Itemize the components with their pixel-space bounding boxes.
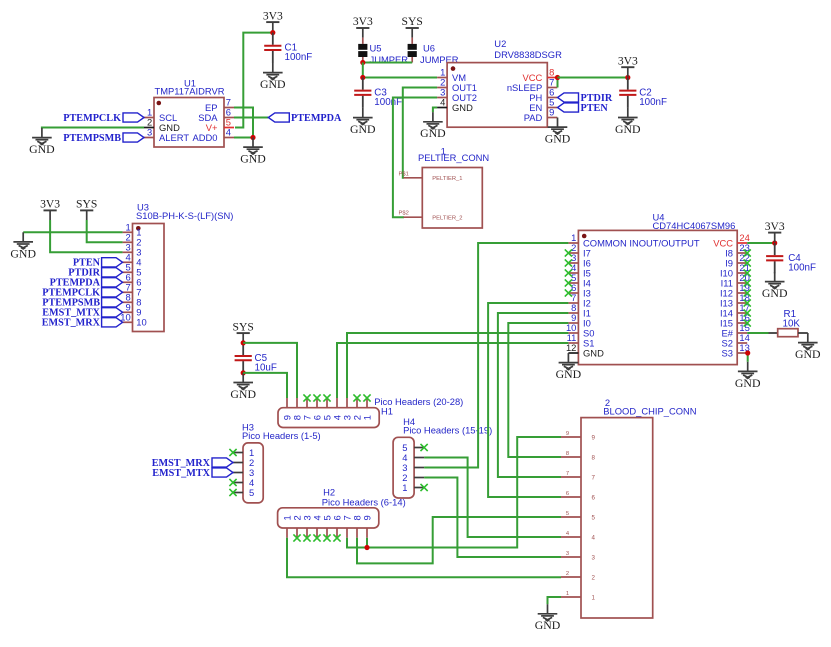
svg-text:7: 7 bbox=[566, 471, 569, 477]
wire U2.VCC to nSLEEP bbox=[557, 78, 559, 88]
junction H2 pin9 bbox=[364, 545, 369, 550]
svg-text:PELTIER_1: PELTIER_1 bbox=[432, 176, 462, 182]
svg-text:ALERT: ALERT bbox=[159, 132, 189, 143]
ground GND below U1.ADD0 bbox=[243, 138, 263, 155]
U1 pin 7 EP bbox=[224, 107, 234, 109]
svg-text:EMST_MTX: EMST_MTX bbox=[152, 468, 210, 479]
U4 pin 13 S3 bbox=[737, 352, 747, 354]
capacitor C2 100nF bbox=[627, 78, 629, 90]
svg-text:100nF: 100nF bbox=[788, 263, 816, 274]
H3 no-connects pins 1,4,5 bbox=[229, 449, 236, 456]
svg-text:P$2: P$2 bbox=[399, 211, 409, 217]
label EMST_MRX at H3 pin2 bbox=[212, 458, 233, 467]
junction C4 top bbox=[772, 240, 777, 245]
U3 pin 4 bbox=[123, 261, 133, 263]
U4 pin 21 I10 bbox=[737, 272, 747, 274]
PELTIER_CONN pin P$2 bbox=[404, 216, 423, 218]
svg-text:GND: GND bbox=[535, 618, 561, 632]
H2 pin 9 bbox=[366, 528, 368, 538]
wire U1.GND to ground bbox=[42, 128, 144, 129]
svg-text:ADD0: ADD0 bbox=[192, 132, 217, 143]
ground GND below C3 bbox=[353, 108, 373, 125]
label PTEMPSMB at U1.ALERT bbox=[123, 133, 144, 142]
svg-text:S3: S3 bbox=[722, 347, 733, 358]
U4 pin 6 I3 bbox=[568, 292, 578, 294]
svg-text:10K: 10K bbox=[783, 319, 801, 330]
H4 pin 5 bbox=[414, 447, 424, 449]
H3 pin 4 bbox=[233, 482, 243, 484]
ground GND left of U3 bbox=[13, 232, 33, 249]
svg-text:Pico Headers (20-28): Pico Headers (20-28) bbox=[374, 396, 463, 407]
svg-text:U2: U2 bbox=[494, 38, 506, 49]
svg-text:DRV8838DSGR: DRV8838DSGR bbox=[494, 49, 562, 60]
wire U4.I0 to BLOOD pin8 bbox=[508, 323, 568, 457]
svg-text:GND: GND bbox=[350, 122, 376, 136]
svg-text:1: 1 bbox=[361, 415, 372, 420]
H1 pin 2 bbox=[356, 398, 358, 408]
U2 pin 1 VM bbox=[437, 77, 447, 79]
svg-text:JUMPER: JUMPER bbox=[370, 54, 409, 65]
H2 pin 8 bbox=[356, 528, 358, 538]
connector H1 Pico Headers (20-28) body bbox=[278, 408, 379, 428]
U4 pin 9 I0 bbox=[568, 322, 578, 324]
svg-text:Pico Headers (1-5): Pico Headers (1-5) bbox=[242, 430, 321, 441]
junction U2.VCC bbox=[555, 75, 560, 80]
svg-text:8: 8 bbox=[592, 455, 596, 462]
label EMST_MRX at U3 pin 10 bbox=[102, 318, 123, 327]
U4 pin 8 I1 bbox=[568, 312, 578, 314]
label PTDIR at U2.PH bbox=[558, 93, 579, 102]
U2 pin 4 GND bbox=[437, 107, 447, 109]
svg-text:3: 3 bbox=[147, 127, 152, 138]
U1 pin 1 SCL bbox=[144, 117, 154, 119]
H3 pin 5 bbox=[233, 492, 243, 494]
svg-text:PELTIER_2: PELTIER_2 bbox=[432, 216, 462, 222]
U4 pin 4 I5 bbox=[568, 272, 578, 274]
IC U1 TMP117AIDRVR body bbox=[154, 98, 224, 148]
label PTEMPDA at U3 pin 6 bbox=[102, 278, 123, 287]
U4 pin 15 E# bbox=[737, 332, 747, 334]
U2 pin 9 PAD bbox=[547, 117, 557, 119]
wire U1.SDA to PTEMPDA bbox=[234, 117, 268, 119]
svg-text:GND: GND bbox=[29, 142, 55, 156]
wire U2.VCC to 3V3/C2 bbox=[558, 77, 628, 79]
U4 pin 24 VCC bbox=[737, 242, 747, 244]
wire U4.S0 to H1 pin3 bbox=[347, 333, 568, 398]
svg-text:2: 2 bbox=[592, 575, 596, 582]
U1 pin 6 SDA bbox=[224, 117, 234, 119]
svg-text:PELTIER_CONN: PELTIER_CONN bbox=[418, 152, 489, 163]
svg-text:1: 1 bbox=[566, 591, 569, 597]
svg-text:P$1: P$1 bbox=[399, 171, 409, 177]
H4 no-connects pins 5,1 bbox=[421, 444, 428, 451]
U1 pin 4 ADD0 bbox=[224, 137, 234, 139]
svg-text:4: 4 bbox=[440, 97, 445, 108]
connector PELTIER_CONN body bbox=[422, 168, 482, 229]
H4 pin 4 bbox=[414, 457, 424, 459]
U4 pin 10 S0 bbox=[568, 332, 578, 334]
wire H2 pin1 to BLOOD pin2 bbox=[287, 538, 561, 577]
svg-text:3V3: 3V3 bbox=[263, 9, 283, 22]
svg-text:9: 9 bbox=[361, 515, 372, 520]
U4 pin 16 I15 bbox=[737, 322, 747, 324]
svg-text:3V3: 3V3 bbox=[40, 198, 60, 211]
wire U1.EP to ground net bbox=[234, 108, 253, 138]
U4 pin 5 I4 bbox=[568, 282, 578, 284]
jumper U5 bbox=[362, 38, 364, 44]
H3 pin 1 bbox=[233, 452, 243, 454]
svg-text:7: 7 bbox=[592, 475, 596, 482]
U3 pin 1 bbox=[123, 231, 133, 233]
label PTEMPSMB at U3 pin 8 bbox=[102, 298, 123, 307]
wire 3V3 to C1/V+ node bbox=[235, 33, 273, 128]
svg-text:5: 5 bbox=[592, 515, 596, 522]
ground GND below U4 pin13 bbox=[738, 362, 758, 379]
capacitor C1 100nF bbox=[272, 33, 274, 45]
U4 no-connects right pins 23-16 bbox=[744, 249, 751, 256]
H3 pin 3 bbox=[233, 472, 243, 474]
svg-text:U6: U6 bbox=[423, 43, 435, 54]
label PTEMPCLK at U1.SCL bbox=[123, 113, 144, 122]
H1 pin 9 bbox=[286, 398, 288, 408]
svg-text:PTEMPDA: PTEMPDA bbox=[291, 113, 342, 124]
U3 pin 2 bbox=[123, 241, 133, 243]
wire U1.ADD0 to ground net bbox=[234, 137, 253, 139]
ground GND below U2.PAD bbox=[548, 118, 568, 135]
wire U5 to U6 bottom bbox=[363, 62, 412, 64]
svg-text:GND: GND bbox=[420, 126, 446, 140]
ground GND below U4 pin12 bbox=[559, 353, 579, 370]
H4 pin 1 bbox=[414, 487, 424, 489]
U1 pin 5 V+ bbox=[224, 127, 234, 129]
wire U5 to U2.VM / C3 bbox=[363, 63, 437, 78]
svg-text:SYS: SYS bbox=[233, 320, 254, 333]
svg-text:3V3: 3V3 bbox=[765, 220, 785, 233]
wire H4 pin2 to BLOOD pin3 bbox=[424, 478, 561, 558]
jumper U6 bbox=[411, 38, 413, 44]
wire 3V3 to U3 pin3 bbox=[50, 220, 123, 252]
U1 pin 3 ALERT bbox=[144, 137, 154, 139]
BLOOD_CHIP_CONN pin 4 bbox=[561, 536, 581, 538]
H1 pin 3 bbox=[346, 398, 348, 408]
svg-text:100nF: 100nF bbox=[639, 97, 667, 108]
U4 pin 20 I11 bbox=[737, 282, 747, 284]
svg-text:9: 9 bbox=[549, 107, 554, 118]
U4 pin 3 I6 bbox=[568, 262, 578, 264]
svg-text:GND: GND bbox=[260, 77, 286, 91]
connector H2 Pico Headers (6-14) body bbox=[278, 508, 379, 528]
ground GND below BLOOD pin1 bbox=[538, 604, 558, 621]
connector U3 body bbox=[133, 224, 165, 332]
H2 pin 4 bbox=[316, 528, 318, 538]
wire SYS to H1 pin8 bbox=[243, 343, 297, 398]
svg-text:S10B-PH-K-S-(LF)(SN): S10B-PH-K-S-(LF)(SN) bbox=[136, 210, 233, 221]
svg-text:1: 1 bbox=[592, 595, 596, 602]
wire U4 S3 to ground bbox=[747, 353, 749, 362]
ground GND below C2 bbox=[618, 108, 638, 125]
wire C5 bottom to H1 pin9 bbox=[243, 373, 287, 398]
svg-text:GND: GND bbox=[240, 152, 266, 166]
wire H2 pin7/pin9 to BLOOD pin9 bbox=[347, 437, 561, 548]
svg-text:5: 5 bbox=[566, 511, 569, 517]
H3 pin 2 bbox=[233, 462, 243, 464]
junction EP/ADD0 ground bbox=[250, 135, 255, 140]
svg-text:SYS: SYS bbox=[402, 15, 423, 28]
svg-text:PAD: PAD bbox=[524, 112, 543, 123]
IC U2 DRV8838DSGR body bbox=[447, 63, 547, 128]
junction C2 top bbox=[625, 75, 630, 80]
U3 pin 10 bbox=[123, 321, 133, 323]
capacitor C3 100nF bbox=[362, 78, 364, 90]
H1 pin 6 bbox=[316, 398, 318, 408]
svg-text:GND: GND bbox=[795, 347, 821, 361]
H2 pin 2 bbox=[296, 528, 298, 538]
BLOOD_CHIP_CONN pin 8 bbox=[561, 456, 581, 458]
U3 pin 5 bbox=[123, 271, 133, 273]
U4 pin 1 COMMON INOUT/OUTPUT bbox=[568, 242, 578, 244]
svg-text:CD74HC4067SM96: CD74HC4067SM96 bbox=[653, 220, 736, 231]
junction U5 bottom bbox=[360, 60, 365, 65]
svg-text:GND: GND bbox=[10, 246, 36, 260]
svg-text:3: 3 bbox=[566, 551, 569, 557]
U2 pin 3 OUT2 bbox=[437, 97, 447, 99]
H1 pin 4 bbox=[336, 398, 338, 408]
IC U4 CD74HC4067SM96 body bbox=[578, 230, 737, 364]
H4 pin 3 bbox=[414, 467, 424, 469]
junction 3V3/C1 bbox=[270, 30, 275, 35]
U4 pin 14 S2 bbox=[737, 342, 747, 344]
H2 no-connects pins 2-6 bbox=[293, 534, 300, 541]
connector H4 Pico Headers (15-19) body bbox=[393, 437, 414, 498]
svg-text:PTEN: PTEN bbox=[581, 103, 609, 114]
svg-text:8: 8 bbox=[566, 451, 569, 457]
H1 pin 5 bbox=[326, 398, 328, 408]
U4 no-connects left pins 2-6 bbox=[565, 249, 572, 256]
BLOOD_CHIP_CONN pin 6 bbox=[561, 496, 581, 498]
junction U4.S3 bbox=[745, 350, 750, 355]
wire U4.I1 to BLOOD pin7 bbox=[498, 313, 569, 477]
connector H3 Pico Headers (1-5) body bbox=[243, 443, 263, 503]
wire H2 pin9 drop bbox=[366, 538, 368, 548]
ground GND below R1 bbox=[798, 333, 818, 350]
wire U2.GND to ground bbox=[433, 108, 437, 113]
ground GND left of U1 bbox=[32, 128, 52, 145]
H2 pin 5 bbox=[326, 528, 328, 538]
svg-text:GND: GND bbox=[556, 367, 582, 381]
svg-text:3V3: 3V3 bbox=[618, 54, 638, 67]
H1 no-connects pins 7,6,5,2,1 bbox=[303, 394, 310, 401]
wire U4.E# to R1 bbox=[747, 332, 768, 334]
BLOOD_CHIP_CONN pin 5 bbox=[561, 516, 581, 518]
wire H4 pin4 to BLOOD pin4 bbox=[424, 458, 561, 538]
wire U4.I2 to BLOOD pin6 bbox=[488, 303, 568, 497]
label PTEMPCLK at U3 pin 7 bbox=[102, 288, 123, 297]
U4 pin 22 I9 bbox=[737, 262, 747, 264]
wire U4.COMMON to H4 pin3 bbox=[424, 243, 568, 468]
svg-text:10: 10 bbox=[136, 317, 146, 328]
wire U4.S1 to H1 pin4 bbox=[337, 343, 568, 398]
svg-text:GND: GND bbox=[452, 102, 473, 113]
wire U2.OUT1 to PELTIER_1 bbox=[403, 88, 437, 178]
svg-text:2: 2 bbox=[566, 571, 569, 577]
wire U2.OUT2 to PELTIER_2 bbox=[393, 98, 437, 218]
wire BLOOD pin1 to ground bbox=[548, 597, 562, 604]
svg-text:BLOOD_CHIP_CONN: BLOOD_CHIP_CONN bbox=[603, 406, 696, 417]
H4 pin 2 bbox=[414, 477, 424, 479]
ground GND below C1 bbox=[263, 63, 283, 80]
svg-text:3V3: 3V3 bbox=[353, 15, 373, 28]
label PTEN at U3 pin 4 bbox=[102, 258, 123, 267]
svg-text:EMST_MRX: EMST_MRX bbox=[42, 318, 101, 329]
U2 pin 5 EN bbox=[547, 107, 557, 109]
label EMST_MTX at H3 pin3 bbox=[212, 468, 233, 477]
svg-text:10uF: 10uF bbox=[255, 362, 277, 373]
ground GND below U2.GND bbox=[423, 112, 443, 129]
svg-text:SYS: SYS bbox=[76, 198, 97, 211]
U4 pin 23 I8 bbox=[737, 252, 747, 254]
junction C3 top bbox=[360, 75, 365, 80]
svg-text:Pico Headers (6-14): Pico Headers (6-14) bbox=[322, 497, 406, 508]
U3 pin 7 bbox=[123, 291, 133, 293]
U4 pin 19 I12 bbox=[737, 292, 747, 294]
svg-text:6: 6 bbox=[592, 495, 596, 502]
wire H2 pin8 to BLOOD pin5 bbox=[357, 517, 561, 563]
svg-text:GND: GND bbox=[615, 122, 641, 136]
capacitor C5 10uF bbox=[242, 343, 244, 355]
svg-text:1: 1 bbox=[402, 482, 407, 493]
svg-text:PTEMPCLK: PTEMPCLK bbox=[63, 113, 121, 124]
svg-text:GND: GND bbox=[735, 376, 761, 390]
svg-text:9: 9 bbox=[566, 431, 569, 437]
H2 pin 1 bbox=[286, 528, 288, 538]
label PTEN at U2.EN bbox=[558, 103, 579, 112]
wire U4.VCC to 3V3/C4 bbox=[747, 242, 775, 244]
ground GND below C5 bbox=[233, 373, 253, 390]
U4 pin 11 S1 bbox=[568, 342, 578, 344]
H2 pin 7 bbox=[346, 528, 348, 538]
PELTIER_CONN pin P$1 bbox=[404, 177, 423, 179]
H1 pin 8 bbox=[296, 398, 298, 408]
svg-text:100nF: 100nF bbox=[374, 97, 402, 108]
svg-text:GND: GND bbox=[762, 286, 788, 300]
U2 pin 6 PH bbox=[547, 97, 557, 99]
svg-text:GND: GND bbox=[583, 347, 604, 358]
svg-text:100nF: 100nF bbox=[285, 52, 313, 63]
U2 pin 8 VCC bbox=[547, 77, 557, 79]
H1 pin 7 bbox=[306, 398, 308, 408]
label EMST_MTX at U3 pin 9 bbox=[102, 308, 123, 317]
U3 pin 9 bbox=[123, 311, 133, 313]
H2 pin 6 bbox=[336, 528, 338, 538]
U4 pin 7 I2 bbox=[568, 302, 578, 304]
U4 pin 18 I13 bbox=[737, 302, 747, 304]
ground GND below C4 bbox=[765, 272, 785, 289]
U2 pin 2 OUT1 bbox=[437, 87, 447, 89]
svg-text:GND: GND bbox=[545, 132, 571, 146]
BLOOD_CHIP_CONN pin 2 bbox=[561, 576, 581, 578]
svg-text:6: 6 bbox=[566, 491, 569, 497]
U4 pin 2 I7 bbox=[568, 252, 578, 254]
U3 pin 3 bbox=[123, 251, 133, 253]
U1 pin 2 GND bbox=[144, 127, 154, 129]
svg-text:5: 5 bbox=[249, 487, 254, 498]
capacitor C4 100nF bbox=[774, 243, 776, 255]
BLOOD_CHIP_CONN pin 3 bbox=[561, 556, 581, 558]
U4 pin 17 I14 bbox=[737, 312, 747, 314]
svg-text:U5: U5 bbox=[370, 43, 382, 54]
svg-text:3: 3 bbox=[592, 555, 596, 562]
junction C5 bottom bbox=[241, 370, 246, 375]
BLOOD_CHIP_CONN pin 7 bbox=[561, 476, 581, 478]
svg-text:GND: GND bbox=[230, 387, 256, 401]
svg-text:9: 9 bbox=[592, 435, 596, 442]
wire SYS to U3 pin2 bbox=[87, 220, 123, 242]
svg-text:4: 4 bbox=[592, 535, 596, 542]
BLOOD_CHIP_CONN pin 9 bbox=[561, 436, 581, 438]
H2 pin 3 bbox=[306, 528, 308, 538]
svg-text:4: 4 bbox=[226, 127, 231, 138]
U4 pin 12 GND bbox=[568, 352, 578, 354]
svg-text:PTEMPSMB: PTEMPSMB bbox=[63, 133, 121, 144]
resistor R1 10K bbox=[769, 332, 778, 334]
junction C5 top bbox=[241, 340, 246, 345]
svg-text:TMP117AIDRVR: TMP117AIDRVR bbox=[155, 85, 225, 96]
BLOOD_CHIP_CONN pin 1 bbox=[561, 596, 581, 598]
U3 pin 8 bbox=[123, 301, 133, 303]
svg-text:COMMON INOUT/OUTPUT: COMMON INOUT/OUTPUT bbox=[583, 237, 700, 248]
connector BLOOD_CHIP_CONN body bbox=[581, 418, 653, 618]
label PTEMPDA at U1.SDA bbox=[268, 113, 289, 122]
wire U3 pin1 to ground bbox=[23, 231, 122, 233]
label PTDIR at U3 pin 5 bbox=[102, 268, 123, 277]
H1 pin 1 bbox=[366, 398, 368, 408]
U3 pin 6 bbox=[123, 281, 133, 283]
U2 pin 7 nSLEEP bbox=[547, 87, 557, 89]
